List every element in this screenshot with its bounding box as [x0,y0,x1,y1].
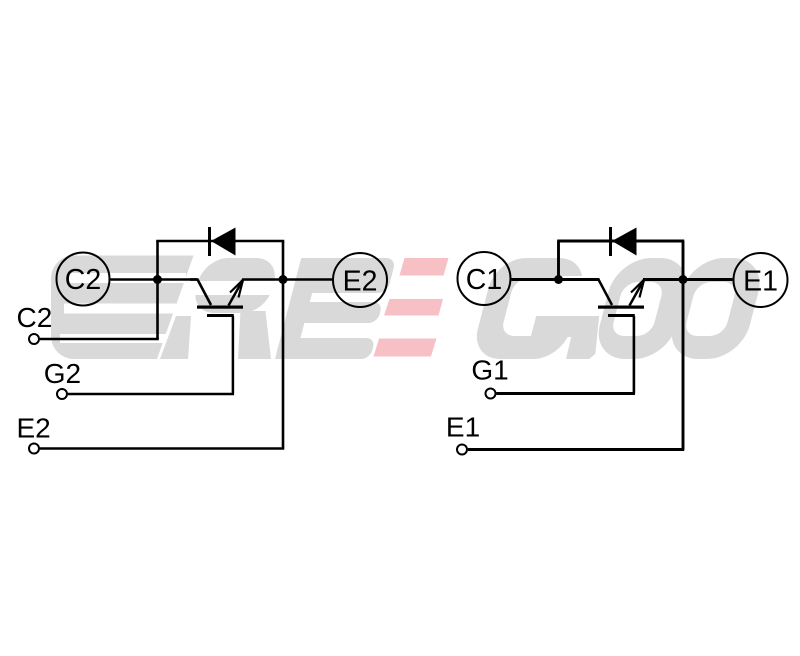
watermark red E-bars (logo glyph) [374,258,449,357]
node junction dot left circuit collector [153,275,162,284]
wire emitter tip to E1 circle [643,278,733,281]
wire diode loop top horizontal [156,240,284,243]
watermark letter O2 (smooth) [664,258,767,359]
watermark letter E (striped bars) [275,258,396,359]
diode D1 [611,227,637,256]
svg-text:G2: G2 [44,358,81,389]
wire C1 circle to collector bend [512,278,600,281]
wire diode loop left vertical right circuit [557,241,560,280]
svg-text:E2: E2 [17,412,51,443]
diode D2 [210,227,236,256]
watermark letter G1 (striped) [51,255,194,359]
watermark GREEGOO logo gray letters [24,255,768,359]
node junction dot right circuit emitter [679,275,688,284]
wire G2 gate vertical [232,316,235,394]
terminal circle C1 big [458,252,511,305]
wire E1 terminal horizontal [468,448,684,451]
terminal circle E2 big [333,253,387,307]
node junction dot left circuit emitter [279,275,288,284]
svg-text:G1: G1 [471,354,508,385]
svg-text:C2: C2 [17,302,53,333]
watermark letter G2 (smooth) [470,258,620,359]
watermark letter R (striped) [170,258,297,359]
terminal pin G2 [57,389,67,399]
svg-text:C1: C1 [466,264,502,296]
terminal pin E2 [29,444,39,454]
transistor Q2 (IGBT) [190,280,243,318]
node junction dot right circuit collector [554,275,563,284]
svg-text:E1: E1 [743,266,778,298]
wire diode loop left vertical [156,241,159,280]
wire emitter tip to E2 circle [242,278,332,281]
svg-text:E1: E1 [446,412,480,443]
wire G2 terminal horizontal [68,393,234,396]
wire G1 gate vertical [633,316,636,394]
watermark letter O1 (smooth) [591,258,694,359]
wire diode loop right vertical / emitter drop to E1 terminal [682,241,685,450]
transistor Q1 (IGBT) [591,280,644,318]
terminal pin G1 [486,389,496,399]
terminal circle E1 big [734,253,788,307]
wire G1 terminal horizontal [497,392,636,395]
wire C2 circle to collector bend [111,278,199,281]
svg-text:C2: C2 [65,264,101,296]
terminal pin C2 [29,334,39,344]
terminal circle C2 big [57,253,110,306]
terminal pin E1 [457,445,467,455]
wire C2 terminal vertical [156,280,159,340]
svg-text:E2: E2 [343,266,378,298]
wire diode loop right vertical / emitter drop to E2 terminal [282,241,285,449]
wire E2 terminal horizontal [40,447,284,450]
wire C2 terminal horizontal [40,338,159,341]
wire diode loop top horizontal right circuit [557,240,684,243]
